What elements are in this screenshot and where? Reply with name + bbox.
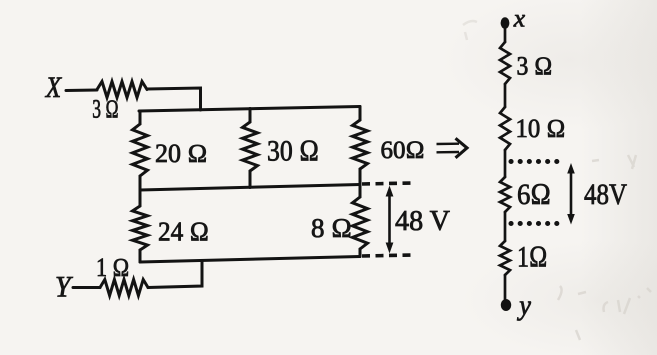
svg-text:X: X: [45, 70, 62, 104]
svg-text:1Ω: 1Ω: [517, 241, 548, 274]
svg-text:1 Ω: 1 Ω: [96, 253, 130, 282]
svg-text:60Ω: 60Ω: [381, 137, 425, 164]
svg-text:3 Ω: 3 Ω: [92, 95, 119, 124]
svg-text:y: y: [516, 290, 531, 321]
svg-text:30 Ω: 30 Ω: [267, 135, 319, 168]
svg-text:6Ω: 6Ω: [517, 178, 551, 211]
svg-text:48V: 48V: [584, 178, 627, 211]
svg-text:20 Ω: 20 Ω: [155, 139, 207, 168]
svg-text:8 Ω: 8 Ω: [311, 213, 352, 243]
svg-text:3 Ω: 3 Ω: [517, 52, 553, 81]
svg-text:48 V: 48 V: [395, 205, 450, 237]
svg-text:24 Ω: 24 Ω: [158, 217, 209, 247]
svg-text:10 Ω: 10 Ω: [516, 114, 566, 143]
svg-text:x: x: [513, 5, 526, 33]
